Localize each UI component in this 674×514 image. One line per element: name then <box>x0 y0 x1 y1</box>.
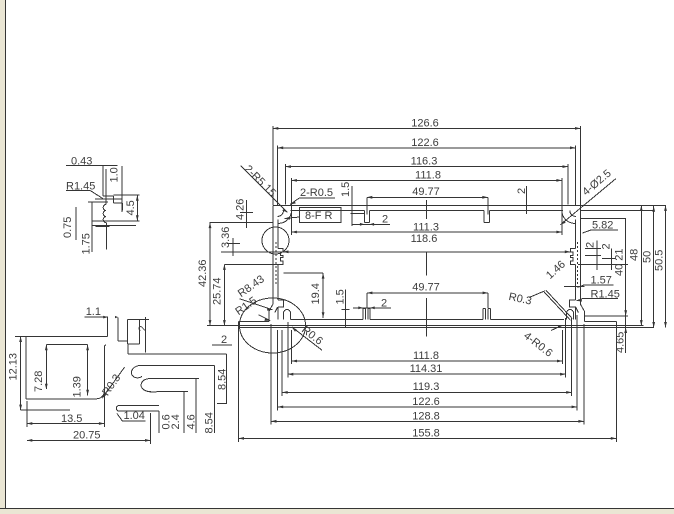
dim 2 wall notch upper <box>585 241 602 271</box>
detail B dim 0.6 <box>159 411 172 433</box>
svg-text:119.3: 119.3 <box>413 381 440 393</box>
svg-text:2: 2 <box>382 214 388 226</box>
profile top wall inner <box>291 209 563 211</box>
svg-text:1.39: 1.39 <box>72 376 84 397</box>
top rail rib right <box>484 210 489 222</box>
floor outer <box>273 325 581 327</box>
left wall outer <box>269 205 273 321</box>
detail A dim 4.5 <box>113 195 139 221</box>
svg-text:4.5: 4.5 <box>125 200 137 215</box>
leader 4-62.5 <box>561 167 616 224</box>
left flange <box>239 322 581 328</box>
dim 4.65 <box>615 310 628 353</box>
label 5.82 <box>583 220 619 234</box>
dim 49.77 lower <box>367 282 488 337</box>
svg-text:40 21: 40 21 <box>614 248 626 276</box>
detail circle left wall serration <box>262 227 289 254</box>
leader 4-R0.6 bottom-right <box>521 325 563 360</box>
left window border strip <box>0 0 6 514</box>
svg-text:116.3: 116.3 <box>411 156 438 168</box>
detail B wall step <box>118 320 139 344</box>
leader R0.3 right <box>508 291 545 308</box>
svg-text:20.75: 20.75 <box>73 429 101 441</box>
dim 2 top right rotated <box>516 186 528 214</box>
detail B dim 1.04 <box>117 410 145 422</box>
detail B dim 1.1 <box>85 306 119 319</box>
svg-text:1.75: 1.75 <box>81 233 93 254</box>
svg-text:3.36: 3.36 <box>220 227 232 248</box>
corner boss top-right R5.15 <box>562 205 576 223</box>
detail B body top <box>15 336 108 338</box>
dim 126.6 <box>273 118 581 206</box>
detail A label R1.45 <box>66 180 104 199</box>
detail B curl lower <box>141 379 199 392</box>
floor rail right <box>483 309 490 320</box>
floor inner <box>291 318 565 320</box>
dim 49.77 top <box>367 186 488 219</box>
detail B dim 8.54 lower <box>204 366 216 434</box>
svg-text:2.4: 2.4 <box>170 414 182 429</box>
detail B top stub <box>108 317 119 341</box>
svg-text:2: 2 <box>137 325 149 331</box>
dim 4.26 <box>209 199 272 228</box>
svg-text:2-R0.5: 2-R0.5 <box>300 187 333 199</box>
detail A serration <box>103 194 106 227</box>
dim 1.5 top rail <box>340 182 364 226</box>
svg-text:1.5: 1.5 <box>335 289 347 304</box>
svg-text:1.0: 1.0 <box>109 167 121 182</box>
detail B dim 7.28 <box>33 345 48 392</box>
detail A dim 0.43 <box>66 156 118 168</box>
right wall serration texture <box>576 242 578 284</box>
dim 111.8 top <box>291 170 562 209</box>
detail B dim 12.13 <box>8 337 71 411</box>
profile top wall outer <box>273 204 581 206</box>
svg-text:118.6: 118.6 <box>411 233 438 245</box>
svg-text:2: 2 <box>221 334 227 346</box>
svg-text:12.13: 12.13 <box>8 353 20 381</box>
right wall lower notch <box>570 300 576 307</box>
svg-text:128.8: 128.8 <box>412 410 440 422</box>
svg-text:48: 48 <box>629 249 641 261</box>
right top reference lines <box>581 205 667 218</box>
svg-text:111.3: 111.3 <box>413 222 439 234</box>
leader 2-R5.15 <box>241 163 288 212</box>
detail B body left <box>25 337 27 399</box>
svg-text:50: 50 <box>642 251 654 263</box>
detail B dim 1.39 <box>72 345 90 398</box>
detail A dim 1.75 <box>81 202 93 255</box>
detail B dim 2 wall <box>137 317 149 353</box>
detail A dim 0.75 <box>62 202 108 240</box>
detail B dim 20.75 <box>27 413 151 444</box>
dim 122.6 top <box>278 137 576 205</box>
leader R1.5 <box>233 295 270 321</box>
label R1.45 right <box>577 288 620 301</box>
dim 42.36 <box>197 223 273 326</box>
svg-text:2: 2 <box>585 242 597 248</box>
left wall lower notch <box>278 300 284 307</box>
right flange <box>580 322 654 328</box>
dim 50 <box>642 206 656 327</box>
svg-text:25.74: 25.74 <box>212 277 224 305</box>
dim 155.8 <box>239 328 617 442</box>
svg-text:4.26: 4.26 <box>235 199 247 220</box>
dim 40 and 21 <box>584 219 628 353</box>
floor rail left <box>363 309 370 320</box>
dim 118.6 <box>283 233 570 275</box>
detail B arm <box>128 344 227 366</box>
detail B dim 13.5 <box>27 392 105 427</box>
detail B inner corner <box>105 345 107 391</box>
dim 19.4 <box>284 273 325 318</box>
svg-text:8.54: 8.54 <box>204 412 216 433</box>
dim 3.36 <box>220 227 283 256</box>
svg-text:155.8: 155.8 <box>412 427 440 439</box>
svg-text:2: 2 <box>601 243 613 249</box>
detail B curl upper <box>131 366 142 378</box>
detail B dim 2.4 <box>170 392 184 433</box>
dim 2 floor rail <box>353 298 391 310</box>
svg-text:114.31: 114.31 <box>410 363 443 375</box>
right wall screw channel teeth <box>570 249 575 265</box>
svg-text:19.4: 19.4 <box>310 283 322 304</box>
svg-text:4.65: 4.65 <box>615 332 627 353</box>
detail A bottom shelf <box>92 221 139 227</box>
detail B dim 4.6 <box>186 379 198 433</box>
dim 111.8 bottom <box>292 330 563 364</box>
label 1.57 <box>564 275 614 288</box>
detail A profile steps <box>103 196 123 211</box>
corner rib bottom-right <box>567 310 574 320</box>
svg-text:111.8: 111.8 <box>415 170 441 182</box>
detail A dim 1.0 <box>95 166 123 212</box>
detail A tail <box>105 227 107 250</box>
leader 1.46 <box>544 258 572 320</box>
svg-text:7.28: 7.28 <box>33 371 45 392</box>
corner rib bottom-left <box>284 310 291 320</box>
svg-text:111.8: 111.8 <box>413 350 439 362</box>
label 2-R0.5 <box>290 187 335 205</box>
dim 119.3 <box>282 318 572 396</box>
svg-text:126.6: 126.6 <box>411 118 439 130</box>
detail circle bottom-left corner <box>240 298 306 353</box>
right wall inner <box>576 220 579 320</box>
leader R8.43 <box>236 273 273 310</box>
dim 25.74 <box>212 264 279 325</box>
corner boss top-left R5.15 <box>278 205 292 223</box>
svg-text:49.77: 49.77 <box>412 186 440 198</box>
dim 128.8 <box>271 324 584 425</box>
detail B foot <box>116 406 159 411</box>
detail A top stem <box>103 166 106 196</box>
right wall outer <box>581 205 585 321</box>
dim 50.5 <box>654 205 667 327</box>
detail B dim 8.54 upper <box>217 354 229 403</box>
left wall serration texture <box>275 242 277 284</box>
svg-text:50.5: 50.5 <box>654 250 666 271</box>
dim 122.6 bottom <box>278 315 577 410</box>
svg-text:42.36: 42.36 <box>197 259 209 287</box>
left wall screw channel teeth <box>278 249 283 265</box>
detail B arm label 2 <box>212 334 232 346</box>
top rail rib left <box>364 210 369 222</box>
svg-text:122.6: 122.6 <box>412 396 440 408</box>
left wall inner <box>275 220 278 320</box>
label 8-F R boxed <box>285 208 342 223</box>
svg-text:1.1: 1.1 <box>86 306 101 318</box>
dim 2 wall notch lower <box>578 243 628 270</box>
svg-text:8-F R: 8-F R <box>305 210 333 222</box>
dim 1.5 floor rail <box>335 289 350 327</box>
detail B leader R0.3 <box>100 367 124 398</box>
svg-text:1.5: 1.5 <box>340 182 352 197</box>
dim 48 <box>581 205 644 325</box>
dim 111.3 <box>291 208 562 235</box>
detail B inner shelf <box>46 344 87 346</box>
svg-text:122.6: 122.6 <box>411 137 439 149</box>
detail B body bottom <box>26 391 104 399</box>
svg-text:0.75: 0.75 <box>62 217 74 238</box>
dim 116.3 <box>285 156 568 205</box>
bottom window border strip <box>0 509 674 514</box>
dim 114.31 <box>288 318 566 378</box>
svg-text:49.77: 49.77 <box>412 282 440 294</box>
dim 2 top rail <box>353 214 390 226</box>
leader R0.6 bottom-left <box>292 324 325 350</box>
